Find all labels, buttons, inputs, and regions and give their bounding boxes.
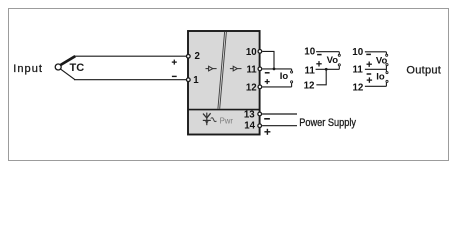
label - input (172, 75, 177, 77)
wire v-option 10 (316, 52, 340, 57)
svg-text:10: 10 (304, 47, 315, 58)
isolation barrier (218, 32, 227, 109)
svg-text:14: 14 (244, 121, 255, 132)
svg-text:Io: Io (376, 72, 385, 83)
pin 11 (246, 65, 261, 76)
label + dual Vo (367, 62, 372, 67)
wire pin12 to Io probe (262, 81, 292, 87)
svg-text:Power Supply: Power Supply (299, 117, 356, 129)
svg-text:Pwr: Pwr (220, 117, 234, 126)
wire pin14 power plus (262, 125, 297, 127)
label - Io (265, 72, 270, 74)
label + power (264, 129, 270, 135)
svg-text:Vo: Vo (327, 55, 339, 66)
transmitter module U1 (188, 31, 260, 135)
label - dual Io (367, 73, 372, 75)
pin 10 (246, 47, 262, 58)
power symbol (203, 113, 211, 126)
label + dual Io (367, 77, 372, 82)
power squiggle (211, 118, 216, 122)
svg-text:10: 10 (246, 47, 257, 58)
thermocouple TC (55, 56, 84, 79)
wire dual 10 (365, 52, 388, 57)
op-amp input stage (206, 66, 217, 71)
svg-text:1: 1 (193, 75, 199, 86)
svg-text:Input: Input (13, 63, 42, 75)
label - Vo option (317, 54, 322, 56)
pin 12 (246, 82, 262, 93)
svg-text:2: 2 (195, 51, 200, 62)
svg-text:Io: Io (280, 71, 289, 82)
wire pin10 strap to pin11 (262, 51, 274, 69)
wire dual 11 (365, 64, 388, 74)
label - power (264, 118, 270, 120)
pin 2 (186, 51, 199, 62)
svg-text:Output: Output (406, 64, 440, 76)
svg-text:TC: TC (70, 62, 85, 74)
wire v-option 11 (316, 64, 341, 69)
wire pin11 to Io probe (262, 69, 292, 73)
pin 14 (244, 121, 261, 132)
wire v-option 12 strap (316, 69, 326, 85)
svg-text:12: 12 (352, 82, 363, 93)
svg-text:11: 11 (304, 65, 315, 76)
svg-text:10: 10 (352, 47, 363, 58)
label + input (172, 60, 177, 65)
pin 1 (186, 75, 199, 86)
divider power section (188, 109, 260, 111)
svg-text:12: 12 (246, 82, 257, 93)
label - dual Vo (366, 53, 371, 55)
wire dual 12 (365, 80, 388, 86)
svg-text:13: 13 (244, 110, 255, 121)
wire TC minus to pin 1 (74, 79, 187, 81)
svg-text:11: 11 (352, 65, 363, 76)
svg-text:12: 12 (304, 81, 315, 92)
label + Vo option (316, 61, 321, 66)
junction pin10-11 strap (273, 68, 276, 71)
wire TC plus to pin 2 (74, 55, 187, 57)
svg-text:11: 11 (246, 65, 257, 76)
label + Io (265, 79, 270, 84)
junction v-option (325, 68, 328, 71)
pin 13 (244, 110, 262, 121)
op-amp output stage (230, 66, 242, 71)
wire pin13 power minus (262, 113, 297, 115)
